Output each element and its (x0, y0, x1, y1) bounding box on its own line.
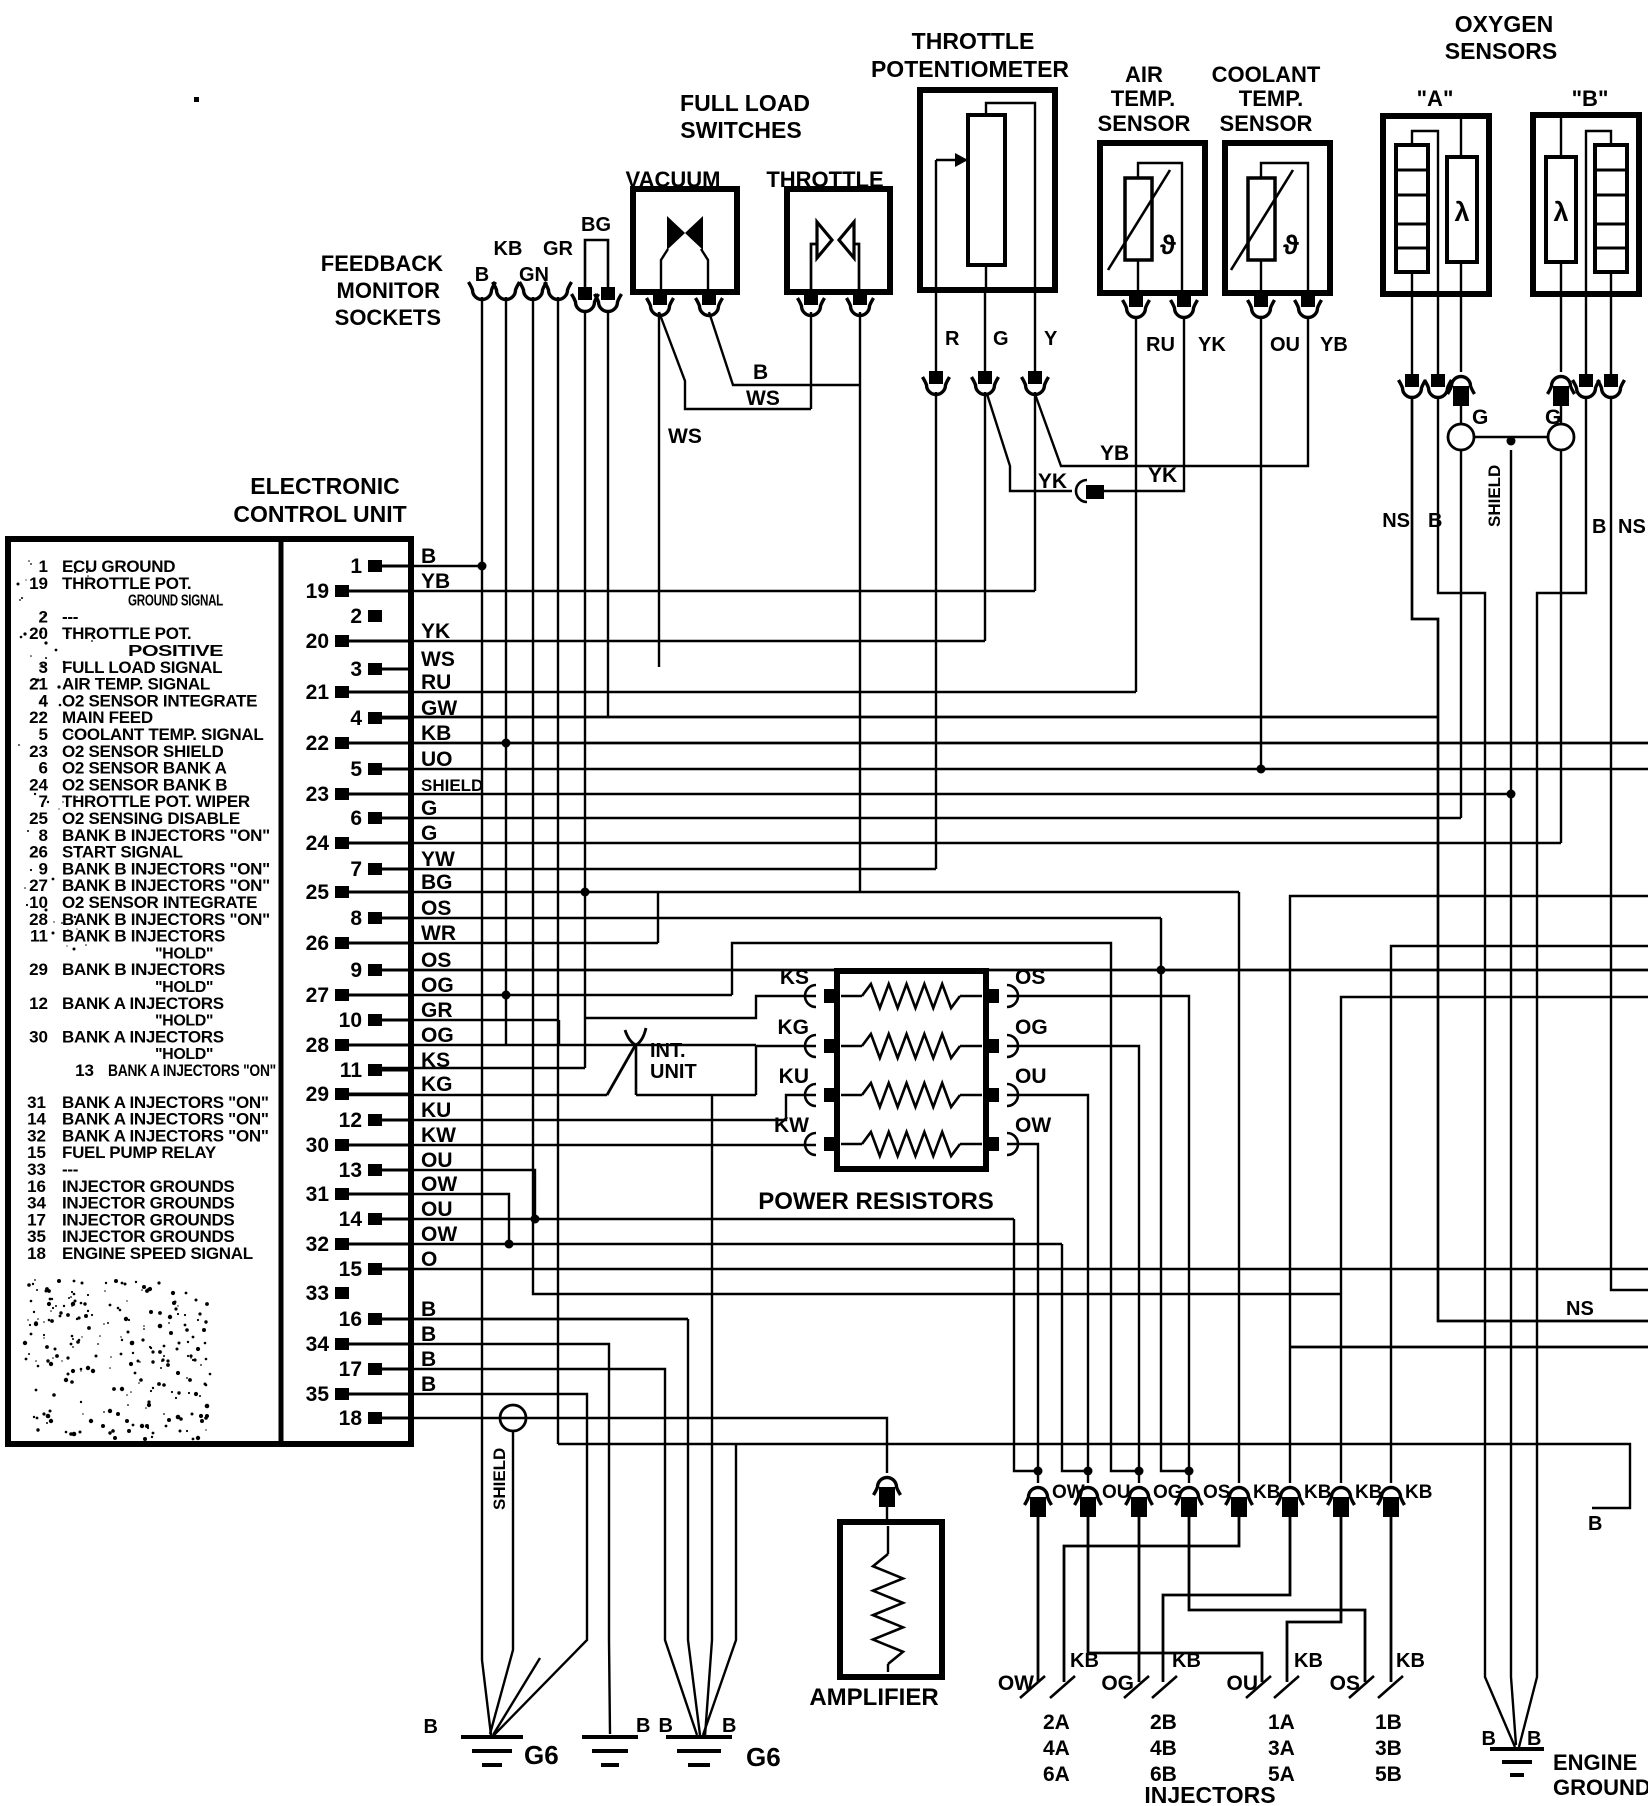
injector connector OW at x1038 (1025, 1488, 1052, 1506)
svg-text:BANK A INJECTORS: BANK A INJECTORS (62, 994, 224, 1013)
wire between G rings with shield tap (1474, 436, 1548, 438)
svg-text:FULL LOAD: FULL LOAD (680, 90, 810, 116)
power resistor 2 zigzag (841, 1045, 862, 1048)
svg-text:RU: RU (421, 671, 451, 694)
svg-text:3: 3 (350, 658, 362, 681)
svg-text:G: G (421, 797, 437, 820)
wire shield bus down (1511, 450, 1516, 1745)
injector 1B/3B/5B signal wire OS (1189, 1511, 1365, 1682)
power resistors box (837, 971, 986, 1169)
throttle terminal 2 (853, 292, 867, 305)
svg-text:2A: 2A (1043, 1711, 1070, 1734)
wire oxygen B B terminal to engine ground (1519, 398, 1586, 1747)
svg-text:FUEL PUMP RELAY: FUEL PUMP RELAY (62, 1143, 217, 1162)
power resistor 1 left terminal KS (824, 989, 839, 1003)
svg-text:YB: YB (1320, 334, 1348, 356)
svg-text:KB: KB (1070, 1650, 1099, 1672)
wire KS feed from BG vertical (585, 996, 816, 1018)
wire pin16 row B to ground drop (382, 1318, 688, 1321)
stray mark top left (194, 97, 199, 102)
wire B socket to pin1 row and ground 1 (481, 297, 483, 1660)
INT. UNIT lever diagonal (607, 1044, 636, 1095)
throttle terminal 1 (804, 292, 818, 305)
wire link WR row to BG row (657, 892, 659, 943)
power resistor 1 right terminal OS (984, 989, 999, 1003)
wire pot G to box (984, 292, 986, 371)
oxygen B shield terminal (1548, 377, 1575, 395)
wire pot Y to YB bus diagonal (1035, 318, 1308, 466)
svg-text:OU: OU (421, 1149, 453, 1172)
svg-text:SENSOR: SENSOR (1098, 111, 1191, 136)
wires oxygen B terminals (1560, 294, 1562, 372)
wire pin30 KW row to resistor (349, 1144, 816, 1146)
wire resistor OS output to injector column (1007, 996, 1189, 1483)
wire resistor OW output to injector column (1007, 1144, 1038, 1483)
riser pin32 to injector column (1062, 1244, 1088, 1471)
coolant terminal YB (1301, 294, 1315, 307)
wire pin15 O row to edge (382, 1268, 1648, 1270)
svg-text:BANK A INJECTORS: BANK A INJECTORS (62, 1027, 224, 1046)
svg-text:YK: YK (1198, 334, 1226, 356)
power resistor 4 zigzag (841, 1143, 862, 1146)
junction pin9 row on riser (1157, 966, 1166, 975)
svg-text:12: 12 (339, 1109, 362, 1132)
svg-text:10: 10 (339, 1009, 362, 1032)
wire oxygen A NS to pin4 row and right edge (1412, 398, 1648, 1321)
svg-text:KB: KB (1304, 1482, 1331, 1503)
svg-text:ELECTRONIC: ELECTRONIC (250, 473, 400, 499)
feedback socket B (469, 282, 496, 300)
svg-text:B: B (424, 1716, 438, 1738)
svg-text:34: 34 (306, 1333, 330, 1356)
power resistor 1 zigzag (841, 995, 862, 998)
svg-text:WR: WR (421, 922, 456, 945)
INT. UNIT fork symbol (625, 1028, 646, 1045)
svg-text:ϑ: ϑ (1160, 230, 1176, 260)
svg-text:7: 7 (350, 858, 362, 881)
svg-text:B: B (421, 1348, 436, 1371)
svg-text:4B: 4B (1150, 1737, 1177, 1760)
svg-text:ENGINE SPEED SIGNAL: ENGINE SPEED SIGNAL (62, 1244, 253, 1263)
svg-text:BG: BG (581, 214, 611, 236)
air temp internal leads (1137, 260, 1139, 293)
wire pin27 OG row (349, 994, 732, 996)
oxygen B terminal NS (1604, 374, 1618, 387)
wire oxygen B lambda ring to pin24 row (1560, 450, 1562, 843)
svg-text:24: 24 (306, 832, 330, 855)
wire right edge feed to KB riser 3 (1341, 997, 1648, 1483)
junction coolant OU at UO row (1257, 765, 1266, 774)
svg-text:SOCKETS: SOCKETS (335, 305, 441, 330)
oxygen A internal leads (1412, 131, 1438, 294)
wire pin14 OU row (382, 1218, 1014, 1220)
wire pin27 reroute up and over to OG riser (732, 943, 1139, 1471)
svg-text:28: 28 (306, 1034, 330, 1057)
svg-text:20: 20 (29, 624, 48, 643)
oxygen A terminal B (1431, 374, 1445, 387)
wire resistor OU output to injector column (1007, 1095, 1088, 1483)
svg-text:NS: NS (1382, 510, 1410, 532)
svg-text:35: 35 (306, 1383, 330, 1406)
wire pin11 KS row (382, 1067, 585, 1069)
svg-text:13: 13 (75, 1061, 94, 1080)
svg-text:SHIELD: SHIELD (1485, 465, 1504, 527)
wire KB socket down (505, 297, 507, 1045)
throttle potentiometer box (920, 90, 1055, 290)
svg-text:TEMP.: TEMP. (1111, 86, 1175, 111)
tee from B bus to ground 3 (703, 1444, 736, 1735)
wire GR socket down to B bus (557, 297, 559, 1444)
injector group1 KB wire (1064, 1511, 1239, 1682)
wire pin6 row G (382, 817, 1461, 819)
wire pot R to box (935, 292, 937, 371)
oxygen A shield terminal (1448, 377, 1475, 395)
svg-text:B: B (659, 1715, 673, 1737)
svg-text:OS: OS (421, 949, 451, 972)
ECU outer box (8, 539, 411, 1444)
svg-text:COOLANT: COOLANT (1212, 62, 1321, 87)
svg-text:λ: λ (1454, 197, 1469, 227)
wire resistor OG output to injector column (1007, 1046, 1139, 1483)
svg-text:MONITOR: MONITOR (337, 278, 441, 303)
ground ring G for sensor B (1560, 397, 1562, 424)
wire B bus row across bottom (558, 1444, 1630, 1508)
wire YK bus to air temp sensor (1104, 318, 1184, 491)
svg-text:6A: 6A (1043, 1763, 1070, 1786)
injector 2A/4A/6A signal wire OW (1037, 1511, 1040, 1682)
ECU divider line (279, 542, 284, 1441)
shield ring on speed signal (500, 1405, 526, 1431)
svg-text:BG: BG (421, 871, 453, 894)
wire KG input stub (756, 1045, 816, 1047)
wire pin5 UO row to edge (382, 768, 1648, 770)
svg-text:9: 9 (350, 959, 362, 982)
wire pin19 row YB (349, 590, 1035, 592)
svg-text:ϑ: ϑ (1283, 230, 1299, 260)
svg-text:G: G (993, 328, 1009, 350)
wire oxygen A lambda ring to pin6 row (1460, 450, 1462, 818)
wire pin32 OW row (349, 1243, 1062, 1245)
BG jumper loop and label (585, 240, 608, 287)
svg-text:OS: OS (1330, 1672, 1360, 1695)
injector connector OU at x1088 (1075, 1488, 1102, 1506)
wire pin21 row RU (349, 691, 1136, 693)
coolant terminal OU (1254, 294, 1268, 307)
junction KB socket at main feed row (502, 739, 511, 748)
injector 2B/4B/6B signal wire OG (1138, 1511, 1141, 1682)
wire right edge feed to KB riser 4 (1391, 946, 1648, 1483)
oxygen A heater ladder (1396, 145, 1428, 272)
svg-text:OU: OU (1102, 1482, 1131, 1503)
wire pot Y to box (1034, 292, 1036, 371)
wire pin25 row BG to KB riser 1 (349, 891, 1239, 893)
wire pin18 row to amplifier (382, 1418, 887, 1473)
svg-text:18: 18 (339, 1407, 363, 1430)
svg-text:B: B (1592, 516, 1606, 538)
svg-text:KB: KB (1294, 1650, 1323, 1672)
svg-text:2B: 2B (1150, 1711, 1177, 1734)
svg-text:INJECTORS: INJECTORS (1144, 1782, 1275, 1806)
inline connector YK (1076, 480, 1087, 502)
svg-text:4: 4 (350, 707, 362, 730)
throttle switch internal leads (811, 244, 817, 290)
svg-text:25: 25 (306, 881, 330, 904)
svg-text:KB: KB (421, 722, 451, 745)
svg-text:G6: G6 (746, 1742, 781, 1772)
injector connector KB at x1391 (1378, 1488, 1405, 1506)
svg-text:1A: 1A (1268, 1711, 1295, 1734)
wire pin29 KG row with INT UNIT tap (349, 1094, 607, 1096)
wire pin13 OU row (382, 1170, 535, 1219)
svg-text:Y: Y (1044, 328, 1058, 350)
wire pin28 OG row to KG vertical (349, 1044, 756, 1046)
svg-text:G6: G6 (524, 1740, 559, 1770)
wire shield ring drain to ground 1 (490, 1431, 513, 1734)
svg-text:15: 15 (339, 1258, 363, 1281)
throttle switch contacts (817, 222, 832, 258)
speckle noise texture in ECU box (83, 1302, 86, 1305)
svg-text:OU: OU (1227, 1672, 1259, 1695)
svg-text:OW: OW (421, 1173, 457, 1196)
svg-text:YB: YB (421, 570, 450, 593)
wire pin24 row G (349, 842, 1561, 844)
wire vacuum terminal1 to pin3 WS row (658, 312, 660, 667)
wire BG socket 1 down to pin11 row (584, 312, 586, 1068)
riser pin14 to injector column (1014, 1219, 1038, 1471)
svg-text:29: 29 (306, 1083, 329, 1106)
power resistor 3 right terminal OU (984, 1088, 999, 1102)
injector group2 KB wire (1163, 1511, 1290, 1682)
oxygen B terminal B (1579, 374, 1593, 387)
svg-text:NS: NS (1618, 516, 1646, 538)
svg-text:YK: YK (1038, 470, 1067, 493)
junction OU column feed (1084, 1467, 1093, 1476)
injector 1A/3A/5A signal wire OU (1088, 1511, 1262, 1682)
svg-text:KU: KU (421, 1099, 451, 1122)
coolant internal leads (1260, 260, 1262, 293)
injector group4 KB wire (1390, 1511, 1393, 1682)
air temp terminal RU (1129, 294, 1143, 307)
svg-text:5: 5 (350, 758, 362, 781)
wire pin 1 row B (382, 565, 482, 567)
svg-text:POWER RESISTORS: POWER RESISTORS (758, 1188, 994, 1215)
engine ground symbol (1490, 1747, 1544, 1751)
svg-text:"B": "B" (1572, 86, 1609, 111)
vacuum switch internal leads (661, 249, 668, 290)
amplifier box (840, 1522, 942, 1677)
wire pin20 row YK (349, 640, 985, 642)
svg-text:NS: NS (1566, 1298, 1594, 1320)
svg-text:OU: OU (1015, 1065, 1047, 1088)
wire pin35 B row to ground 1 (349, 1394, 587, 1735)
svg-text:23: 23 (306, 783, 329, 806)
svg-text:OG: OG (1101, 1672, 1134, 1695)
svg-text:OG: OG (421, 974, 454, 997)
svg-text:B: B (1482, 1728, 1496, 1750)
svg-text:WS: WS (421, 648, 455, 671)
svg-text:4A: 4A (1043, 1737, 1070, 1760)
svg-text:3A: 3A (1268, 1737, 1295, 1760)
long vertical from KG row to ground 3 (705, 1095, 712, 1736)
svg-text:30: 30 (29, 1027, 48, 1046)
wire pin8 OS row to injector riser (382, 917, 1161, 919)
potentiometer resistive element (968, 115, 1005, 265)
svg-text:"A": "A" (1417, 86, 1454, 111)
svg-text:SHIELD: SHIELD (490, 1448, 509, 1510)
coolant thermistor strike line (1231, 170, 1293, 270)
svg-text:17: 17 (339, 1358, 362, 1381)
coolant thermistor body (1248, 178, 1275, 260)
feedback socket GR (545, 282, 572, 300)
svg-text:INT.: INT. (650, 1040, 686, 1062)
svg-text:YK: YK (1148, 464, 1177, 487)
wire pin4 row GW (382, 716, 1438, 719)
injector group3 KB wire (1287, 1511, 1341, 1682)
svg-text:FEEDBACK: FEEDBACK (321, 251, 443, 276)
svg-text:21: 21 (306, 681, 330, 704)
wire BG socket 2 down to pin4 row (607, 312, 609, 717)
wire NS stub row to right edge (1290, 1346, 1648, 1349)
svg-text:1B: 1B (1375, 1711, 1402, 1734)
svg-text:B: B (1527, 1728, 1541, 1750)
svg-text:KW: KW (421, 1124, 456, 1147)
svg-text:TEMP.: TEMP. (1239, 86, 1303, 111)
svg-text:27: 27 (306, 984, 329, 1007)
injector connector OS at x1189 (1176, 1488, 1203, 1506)
svg-text:OS: OS (421, 897, 451, 920)
svg-text:18: 18 (27, 1244, 46, 1263)
feedback socket KB (493, 282, 520, 300)
svg-text:29: 29 (29, 960, 48, 979)
svg-text:RU: RU (1146, 334, 1175, 356)
power resistor 2 left terminal KG (824, 1039, 839, 1053)
vacuum valve bowtie symbol (667, 216, 685, 250)
oxygen B heater ladder (1595, 145, 1627, 272)
svg-text:OXYGEN: OXYGEN (1455, 11, 1553, 37)
air temp thermistor strike line (1108, 170, 1170, 270)
svg-text:6: 6 (350, 807, 362, 830)
wire amplifier connector to box (886, 1501, 888, 1522)
svg-text:YW: YW (421, 848, 455, 871)
power resistor 2 right terminal OG (984, 1039, 999, 1053)
power resistor 3 left terminal KU (824, 1088, 839, 1102)
power resistor 4 right terminal OW (984, 1137, 999, 1151)
KB riser 1 from BG row (1238, 892, 1240, 1483)
svg-text:31: 31 (306, 1183, 330, 1206)
junction pin31 link at pin32 row (505, 1240, 514, 1249)
svg-text:KG: KG (778, 1016, 810, 1039)
svg-text:THROTTLE POT.: THROTTLE POT. (62, 574, 191, 593)
wire pin12 KU row (382, 1095, 816, 1120)
wire pin10 jog down to pin28 row (558, 1020, 560, 1045)
svg-text:B: B (421, 545, 436, 568)
svg-text:22: 22 (306, 732, 329, 755)
vacuum terminal 1 (653, 292, 667, 305)
svg-text:OW: OW (421, 1223, 457, 1246)
svg-text:UNIT: UNIT (650, 1061, 697, 1083)
svg-text:YK: YK (421, 620, 450, 643)
svg-text:8: 8 (350, 907, 362, 930)
svg-text:SWITCHES: SWITCHES (680, 117, 801, 143)
ground G6 left (1) (461, 1735, 523, 1739)
svg-text:KB: KB (1355, 1482, 1382, 1503)
svg-text:KB: KB (1253, 1482, 1280, 1503)
svg-text:14: 14 (339, 1208, 363, 1231)
wire pot G to pin20 row (984, 392, 986, 641)
air temp sensor box (1100, 143, 1205, 293)
svg-text:B: B (421, 1323, 436, 1346)
air temp thermistor body (1125, 178, 1152, 260)
svg-text:OU: OU (421, 1198, 453, 1221)
oxygen A terminal NS (1405, 374, 1419, 387)
svg-text:19: 19 (306, 580, 329, 603)
svg-text:SENSORS: SENSORS (1445, 38, 1557, 64)
svg-text:B: B (722, 1715, 736, 1737)
coolant temp sensor box (1225, 143, 1330, 293)
svg-text:BANK B INJECTORS: BANK B INJECTORS (62, 927, 225, 946)
svg-text:2: 2 (350, 605, 362, 628)
svg-text:GROUND: GROUND (1553, 1775, 1648, 1800)
oxygen sensor A box (1383, 116, 1489, 294)
svg-text:O: O (421, 1248, 437, 1271)
pot terminal Y (1028, 371, 1042, 384)
oxygen B internal leads (1560, 118, 1562, 157)
junction BG at pin25 row (581, 888, 590, 897)
svg-text:OS: OS (1203, 1482, 1230, 1503)
throttle switch box (787, 189, 890, 292)
svg-text:KG: KG (421, 1073, 453, 1096)
svg-text:B: B (1428, 510, 1442, 532)
svg-text:B: B (475, 264, 489, 286)
svg-text:λ: λ (1553, 197, 1568, 227)
svg-text:KB: KB (1172, 1650, 1201, 1672)
wire oxygen B NS to right edge (1611, 398, 1648, 1290)
svg-text:1: 1 (350, 555, 362, 578)
svg-text:26: 26 (306, 932, 329, 955)
svg-text:B: B (421, 1373, 436, 1396)
vertical link rows 28-29 to KG input (755, 1045, 757, 1095)
wire riser from pin8 to OS injector column (1161, 918, 1189, 1471)
svg-text:WS: WS (746, 387, 780, 410)
svg-text:33: 33 (306, 1282, 329, 1305)
svg-text:OW: OW (998, 1672, 1034, 1695)
svg-text:B: B (753, 361, 768, 384)
junction shield at pin23 row (1507, 790, 1516, 799)
wire air temp RU to pin21 row (1135, 316, 1137, 692)
wire pot R to pin7 row (935, 392, 937, 869)
svg-text:KU: KU (779, 1065, 809, 1088)
wire pin7 row YW (382, 868, 936, 870)
svg-text:13: 13 (339, 1159, 362, 1182)
svg-text:32: 32 (306, 1233, 329, 1256)
potentiometer internal leads (935, 160, 937, 290)
junction OS column feed (1185, 1467, 1194, 1476)
wire vacuum terminal1 to WS bus (659, 312, 811, 409)
svg-text:OU: OU (1270, 334, 1300, 356)
ground ring G for sensor A (1460, 397, 1462, 424)
power resistor 4 left terminal KW (824, 1137, 839, 1151)
wire throttle terminal1 to WS bus (810, 312, 812, 409)
wire pin16 drop to ground 3 (688, 1319, 700, 1735)
svg-text:OG: OG (1015, 1016, 1048, 1039)
junction pin1 B (478, 562, 487, 571)
wire pin34 B row to ground 2 (349, 1344, 610, 1734)
svg-text:20: 20 (306, 630, 329, 653)
svg-text:ENGINE: ENGINE (1553, 1750, 1637, 1775)
junction KB socket at pin27 row (502, 991, 511, 1000)
wire pin23 row SHIELD (349, 793, 1511, 795)
svg-text:AMPLIFIER: AMPLIFIER (809, 1684, 938, 1711)
